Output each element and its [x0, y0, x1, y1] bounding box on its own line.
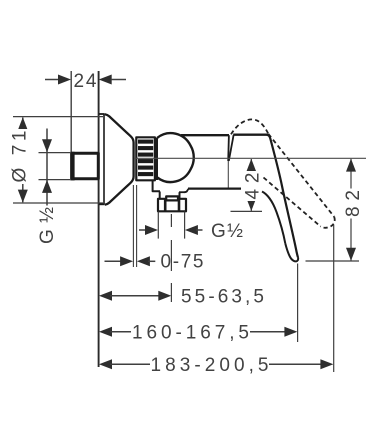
escutcheon top edge cap [99, 113, 105, 115]
dimension diameter 71: top arrow [18, 117, 28, 130]
svg-text:160-167,5: 160-167,5 [132, 322, 249, 343]
160-167,5 dimension: left leader [110, 331, 131, 333]
cartridge ball housing [157, 133, 193, 182]
0-75 dimension: right leader [148, 260, 155, 262]
dimension 82: bottom reference line [306, 260, 360, 262]
left G 1/2 dimension: bottom extension line [39, 179, 71, 181]
svg-text:G ½: G ½ [37, 207, 58, 244]
escutcheon bottom edge cap [99, 203, 105, 205]
outlet collar right bar [178, 199, 181, 211]
dimension 82: dimension line [350, 159, 352, 261]
outlet collar (union nut) [158, 199, 186, 212]
outlet dashed centerline [170, 214, 172, 302]
dimension 24: left leader [45, 79, 60, 81]
55-63,5 dimension: right arrow [158, 291, 171, 301]
outlet G 1/2: left leader [139, 229, 149, 231]
escutcheon cone outline [105, 114, 134, 204]
dimension diameter 71: dimension line [22, 118, 24, 203]
183-200,5 dimension: left leader [110, 363, 150, 365]
0-75 dimension: left arrow [120, 256, 133, 266]
dimension 24: right leader [111, 79, 126, 81]
outlet collar top cap [166, 196, 178, 200]
solid handle tip extension line [297, 264, 299, 343]
left G 1/2 label [37, 206, 58, 246]
svg-text:55-63,5: 55-63,5 [181, 286, 264, 307]
svg-text:24: 24 [74, 71, 97, 92]
left G 1/2 dimension: lower arrow pointing up [42, 180, 52, 193]
55-63,5 dimension: left arrow [99, 291, 112, 301]
dashed handle tip extension line [333, 225, 335, 372]
55-63,5 dimension: leader [110, 295, 160, 297]
body underside step [185, 189, 189, 192]
dashed handle grip end [320, 217, 334, 228]
outlet G 1/2: right arrow [185, 225, 198, 235]
dimension diameter 71: top extension line [13, 116, 103, 118]
handle outer edge [267, 135, 298, 258]
160-167,5 dimension: left arrow [99, 327, 112, 337]
outlet collar left bar [164, 199, 167, 211]
handle top line [233, 133, 267, 135]
ribbed adjustment nut outline [136, 137, 155, 180]
dashed handle lower edge [264, 178, 321, 227]
outlet G 1/2: right leader [196, 229, 203, 231]
pivot notch right line [229, 135, 234, 161]
outlet stub left edge [159, 192, 161, 199]
svg-text:0-75: 0-75 [161, 252, 204, 273]
ball joint face [156, 138, 158, 181]
pivot notch left line [227, 135, 230, 161]
outlet G 1/2: right extension line [184, 212, 186, 239]
dimension 82: top arrow [346, 159, 356, 172]
supply nipple G 1/2 (threaded connector) [72, 153, 99, 179]
outlet G 1/2: left arrow [145, 225, 158, 235]
dimension 42: dimension line [250, 159, 252, 211]
dimension 42 label [243, 171, 264, 201]
body right thin edge [227, 161, 229, 188]
dimension 42: bottom arrow [246, 198, 256, 211]
centerline through body (42/82 top reference) [134, 157, 366, 159]
0-75 dimension: right arrow [137, 256, 150, 266]
outlet G 1/2: left extension line [157, 212, 159, 239]
left G 1/2 dimension: top extension line [39, 152, 71, 154]
dashed handle lowered edge long [268, 134, 334, 217]
left G 1/2 dimension: dimension line [46, 129, 48, 207]
dashed handle raised position peak [231, 119, 268, 134]
supply nipple thick left face [70, 152, 74, 181]
183-200,5 dimension: right leader [269, 363, 323, 365]
body underside left of step [179, 191, 185, 193]
escutcheon back flange second line [103, 114, 105, 205]
handle inner edge [262, 192, 285, 244]
body bottom right line [188, 188, 241, 190]
handle grip tip [285, 244, 298, 262]
dimension 24: left arrow [58, 75, 71, 85]
body lower-left pocket under nut [153, 181, 160, 192]
183-200,5 dimension: right arrow [320, 359, 333, 369]
0-75 dimension: nut edge extension line [136, 185, 138, 267]
svg-text:G ½: G ½ [211, 221, 243, 242]
dimension 82 label [343, 189, 364, 219]
0-75 dimension: left leader [105, 260, 122, 262]
wall line (long vertical at escutcheon back) [98, 71, 100, 367]
dimension 24: extension line at nipple end [70, 71, 72, 152]
dimension 82: bottom arrow [346, 248, 356, 261]
0-75 dimension: escutcheon face extension line [132, 185, 134, 267]
ribbed nut ribs [138, 142, 153, 175]
dimension 42: top arrow [246, 159, 256, 172]
body top line [181, 134, 229, 136]
dimension diameter 71: bottom extension line [13, 202, 103, 204]
svg-text:183-200,5: 183-200,5 [151, 355, 269, 376]
dimension 24: right arrow [99, 75, 112, 85]
183-200,5 dimension: left arrow [99, 359, 112, 369]
dimension diameter 71 label [10, 129, 31, 184]
dimension diameter 71: bottom arrow [18, 190, 28, 203]
dimension 42: bottom reference line [231, 210, 263, 212]
160-167,5 dimension: right leader [250, 331, 287, 333]
160-167,5 dimension: right arrow [284, 327, 297, 337]
outlet stub right edge [179, 192, 181, 199]
left G 1/2 dimension: upper arrow pointing down [42, 139, 52, 152]
